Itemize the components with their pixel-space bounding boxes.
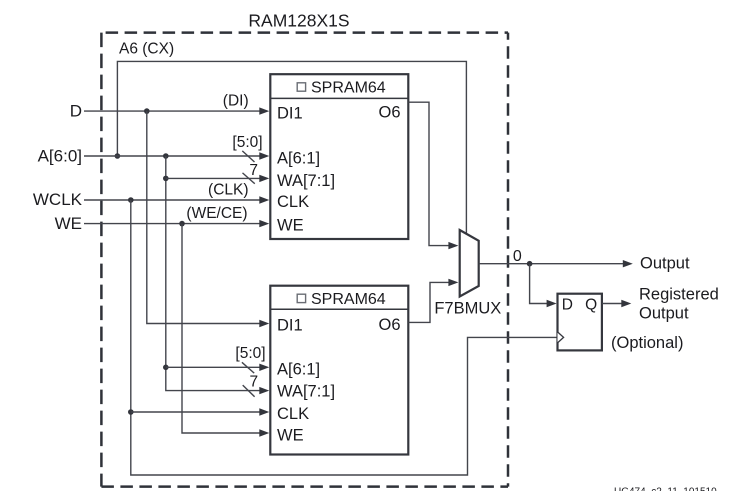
pin arrow into U1 CLK [259,196,269,203]
wire WE branch down to U2 WE [182,224,260,433]
svg-text:Q: Q [585,297,597,314]
svg-text:CLK: CLK [277,405,309,423]
wire upper WA tap [166,177,260,179]
wire FF Q to Registered Output [602,303,622,305]
wire A[6:0] input [84,155,260,157]
node junction upper WA tap [163,176,169,182]
pin arrow into U2 DI1 [259,320,269,327]
wire U1 O6 to mux input 0 [408,102,449,245]
svg-text:D: D [562,297,573,314]
svg-text:WCLK: WCLK [33,190,83,209]
svg-text:DI1: DI1 [277,104,303,122]
svg-text:WA[7:1]: WA[7:1] [277,383,335,401]
node junction on WE wire [179,221,185,227]
svg-text:Output: Output [639,304,689,322]
pin arrow into U1 DI1 [259,107,269,114]
dashed boundary box right [507,33,510,487]
svg-text:(WE/CE): (WE/CE) [186,205,247,222]
dashed boundary box left [100,33,103,487]
pin arrow into U1 A[6:1] [259,152,269,159]
svg-text:A[6:1]: A[6:1] [277,149,320,167]
svg-text:F7BMUX: F7BMUX [434,300,501,318]
U2 header separator [270,308,408,310]
node junction output branch [527,261,533,267]
svg-text:A[6:1]: A[6:1] [277,361,320,379]
svg-text:WE: WE [55,214,82,233]
wire lower CLK tap [131,411,260,413]
node junction lower CLK tap [128,409,134,415]
flip-flop FDR box [558,294,602,351]
pin arrow into U2 WA[7:1] [259,387,269,394]
U1 header square icon [297,83,305,91]
U2 header square icon [297,294,305,302]
dashed boundary box bottom [101,485,508,488]
svg-text:SPRAM64: SPRAM64 [311,291,386,308]
pin arrow into U1 WE [259,220,269,227]
sram U2 (lower SPRAM64) box [270,286,408,455]
FF clock chevron [558,332,564,343]
svg-text:7: 7 [249,162,258,179]
svg-text:O6: O6 [378,104,400,122]
wire mux output to Output [479,263,624,265]
svg-text:UG474_c2_11_101510: UG474_c2_11_101510 [614,487,717,491]
wire output branch to FF D [530,264,548,304]
svg-text:CLK: CLK [277,193,309,211]
node junction A6 tap on A[6:0] bus [115,153,121,159]
bus width slash upper A [242,151,254,162]
wire A6 select: up from A bus, across top, down to mux select [117,61,466,233]
pin arrow into U1 WA[7:1] [259,175,269,182]
pin arrow into FF D [547,300,557,307]
svg-text:A[6:0]: A[6:0] [38,147,82,166]
wire A branch down through WA taps [166,156,260,391]
wire lower A tap [166,366,260,368]
wire WCLK input [84,199,260,201]
svg-text:7: 7 [249,374,258,391]
svg-text:WE: WE [277,427,304,445]
node junction A bus second tap [163,153,169,159]
svg-text:SPRAM64: SPRAM64 [311,80,386,97]
pin arrow into mux upper input [448,242,458,249]
svg-text:A6 (CX): A6 (CX) [119,41,174,58]
svg-text:(Optional): (Optional) [611,334,683,352]
arrow Registered Output [621,300,631,307]
node junction on WCLK wire [128,197,134,203]
pin arrow into U2 CLK [259,408,269,415]
node junction lower A tap [163,365,169,371]
bus width slash lower A [242,362,254,373]
pin arrow into U2 A[6:1] [259,364,269,371]
pin arrow into mux lower input [448,279,458,286]
svg-text:RAM128X1S: RAM128X1S [248,11,349,31]
wire D branch down to U2 DI1 [147,111,260,323]
svg-text:WE: WE [277,216,304,234]
bus width slash lower WA [243,385,255,397]
wire D input [84,110,260,112]
wire WCLK branch down to U2 CLK and register clock [131,200,557,475]
svg-text:Registered: Registered [639,286,719,304]
node junction on D wire [144,108,150,114]
svg-text:(DI): (DI) [223,93,249,110]
svg-text:Output: Output [640,255,690,273]
bus width slash upper WA [243,173,255,184]
svg-text:[5:0]: [5:0] [235,345,265,362]
svg-text:WA[7:1]: WA[7:1] [277,172,335,190]
sram U1 (upper SPRAM64) box [270,74,408,239]
svg-text:(CLK): (CLK) [208,181,248,198]
dashed boundary box top [101,31,508,34]
pin arrow into U2 WE [259,429,269,436]
svg-text:DI1: DI1 [277,317,303,335]
U1 header separator [270,97,408,99]
svg-text:O6: O6 [378,316,400,334]
svg-text:[5:0]: [5:0] [232,134,262,151]
mux F7BMUX body [460,230,479,297]
wire WE input [84,223,260,225]
arrow Output [623,260,633,267]
svg-text:0: 0 [513,248,522,265]
svg-text:D: D [70,102,82,121]
wire U2 O6 to mux input 1 [408,282,449,322]
